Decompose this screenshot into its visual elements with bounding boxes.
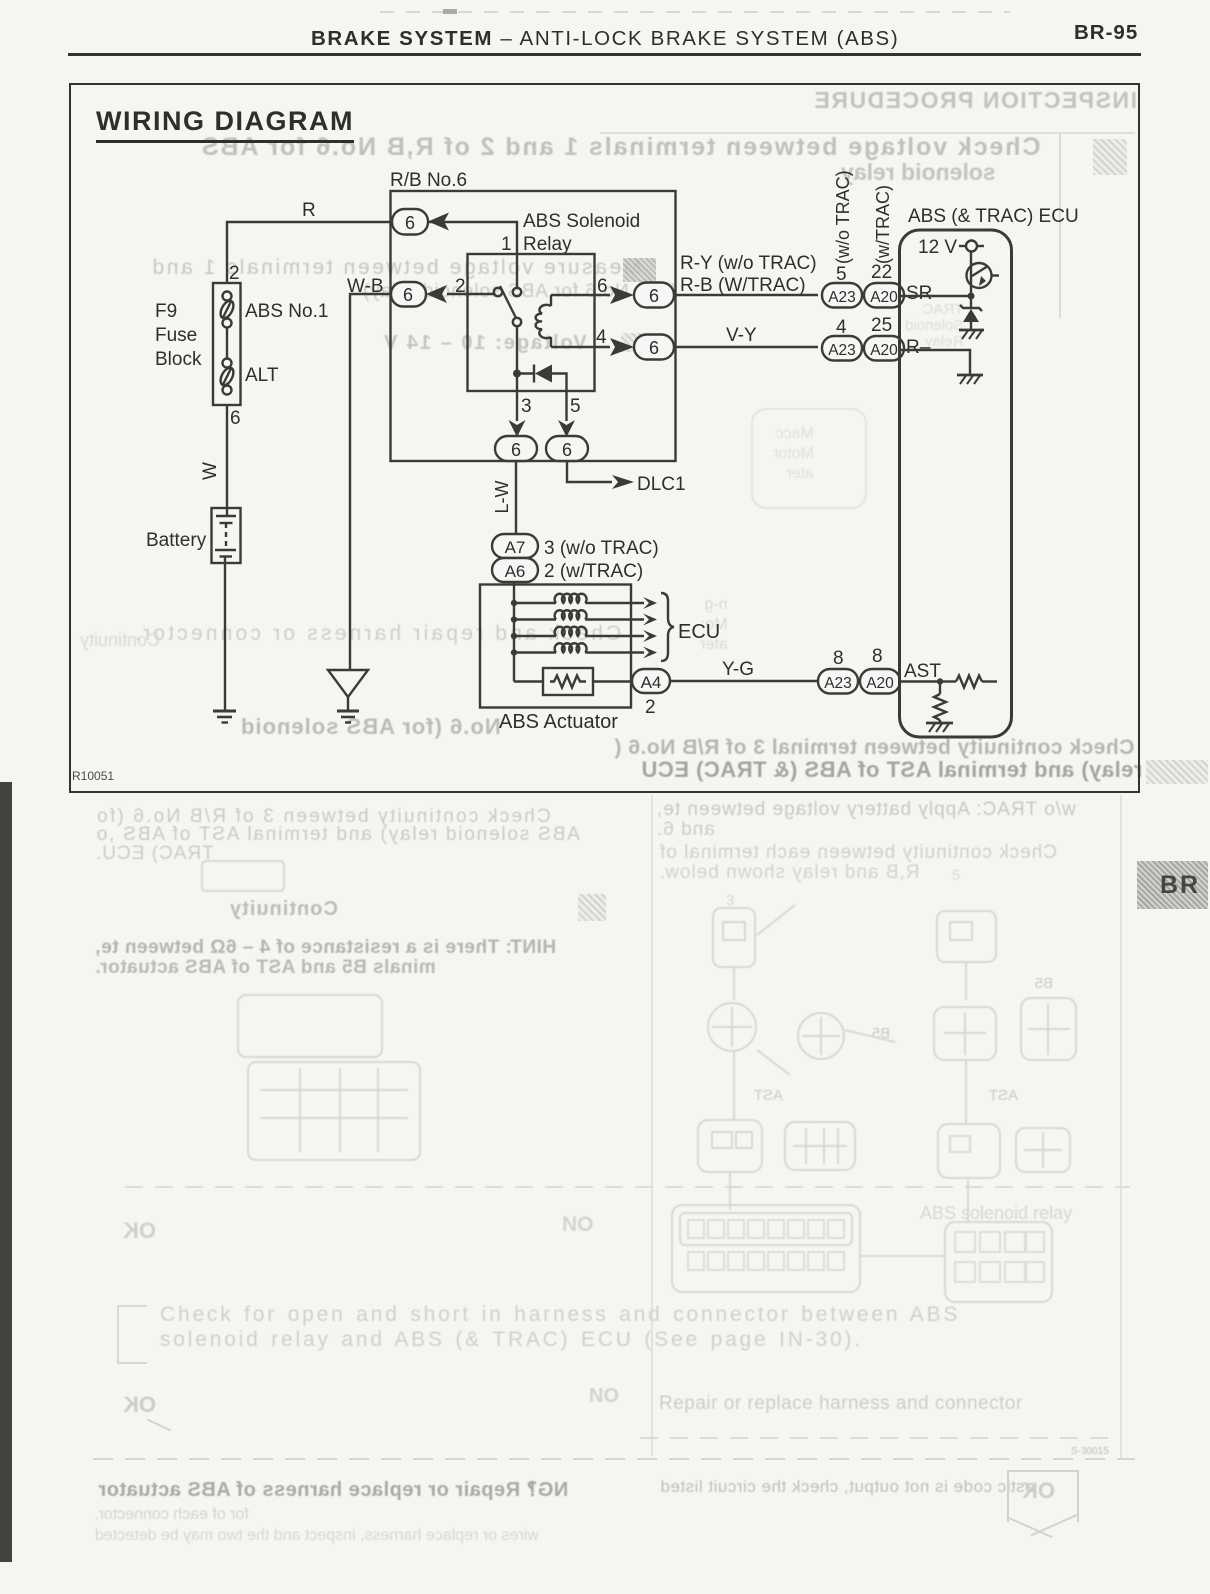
wire A6 to actuator — [513, 582, 515, 585]
DLC1 label — [637, 474, 686, 495]
connector A20 (SR) — [864, 283, 904, 308]
wire W (fuse block to battery) — [226, 405, 228, 508]
svg-text:6: 6 — [403, 285, 413, 305]
junction dot row 2 — [511, 616, 517, 622]
12 V terminal symbol — [959, 241, 984, 252]
solenoid coil row 4 — [514, 643, 644, 652]
bottom mirrored lines — [98, 1477, 568, 1502]
resistor R2 (AST pull) — [940, 676, 997, 688]
arrow to DLC1 — [612, 475, 634, 489]
node W-B label — [347, 276, 384, 297]
ABS Solenoid Relay label — [523, 211, 640, 255]
svg-text:A20: A20 — [866, 675, 894, 692]
wire switch to diode junction — [516, 326, 518, 391]
wire fuse link (between fuses) — [226, 327, 228, 359]
arrow to ECU row 1 — [643, 597, 657, 609]
svg-text:4: 4 — [596, 327, 607, 348]
svg-text:Block: Block — [155, 349, 202, 370]
svg-text:SR: SR — [906, 283, 932, 304]
pin 2 label (fuse block top) — [229, 263, 240, 284]
node R-B (W/TRAC) label — [680, 275, 806, 296]
wire R-Y/R-B (relay to ECU SR) — [674, 294, 818, 296]
fuse block F9 outline — [213, 283, 241, 405]
R- pin label — [906, 337, 931, 358]
transistor Q1 — [967, 263, 1000, 288]
F9 fuse block label — [155, 301, 202, 370]
fuse ALT value label — [245, 365, 279, 386]
relay U1 box — [468, 254, 595, 391]
pin 8 label (A20) — [872, 646, 883, 667]
connector A7 — [492, 534, 538, 558]
ground (zener) — [959, 330, 984, 339]
svg-text:R/B No.6: R/B No.6 — [390, 170, 467, 191]
pin 1 label (relay) — [501, 234, 512, 255]
svg-text:8: 8 — [872, 646, 883, 667]
right column below box — [656, 799, 1076, 821]
wire R (fuse block to relay pin 1) — [227, 222, 517, 288]
ground (R-) — [957, 375, 983, 384]
AST pin label — [904, 661, 941, 682]
svg-text:2: 2 — [645, 697, 656, 718]
arrow to ECU row 4 — [643, 647, 657, 659]
svg-text:6: 6 — [511, 440, 521, 460]
svg-text:L-W: L-W — [492, 480, 512, 513]
ground (AST) — [926, 723, 953, 732]
pin 25 label (A20 R-) — [871, 315, 892, 336]
svg-text:1: 1 — [501, 234, 512, 255]
connector 6 (pin 3 bottom) — [495, 436, 537, 461]
arrow into R connector — [428, 213, 449, 231]
solenoid coil row 2 — [514, 610, 644, 619]
wire pin 3 down — [516, 391, 518, 421]
svg-text:Battery: Battery — [146, 530, 207, 551]
arrow into connector 6 (R-Y row) — [610, 286, 634, 304]
arrow into connector 6 (pin 3) — [509, 420, 526, 437]
ground triangle (W-B) — [328, 670, 368, 723]
svg-text:V-Y: V-Y — [726, 325, 757, 346]
node V-Y label — [726, 325, 757, 346]
node L-W label — [492, 480, 512, 513]
connector A23 (AST) — [818, 669, 858, 694]
A7 pin label 3 (w/o TRAC) — [544, 538, 659, 559]
node R label — [302, 200, 316, 221]
battery label — [146, 530, 207, 551]
svg-text:R–: R– — [906, 337, 931, 358]
svg-text:A4: A4 — [641, 673, 662, 692]
junction dot row 1 — [511, 600, 517, 606]
svg-text:12 V: 12 V — [918, 237, 957, 258]
wire battery to ground — [224, 563, 226, 711]
junction node SR — [968, 293, 975, 300]
fuse ABS No.1 — [218, 292, 236, 328]
connector A6 — [492, 558, 538, 582]
OK pentagon tag bottom right — [1007, 1470, 1079, 1522]
zener diode D2 — [960, 296, 982, 330]
svg-text:ABS Solenoid: ABS Solenoid — [523, 211, 640, 232]
arrow into connector 6 (V-Y row) — [610, 338, 634, 356]
svg-text:A20: A20 — [870, 289, 898, 306]
wire V-Y (relay to ECU R-) — [674, 346, 818, 348]
node Y-G label — [722, 659, 754, 680]
svg-text:A20: A20 — [870, 342, 898, 359]
svg-text:3: 3 — [521, 396, 532, 417]
connector 6 (V-Y output) — [634, 335, 674, 360]
relay switch contacts — [494, 286, 521, 326]
junction dot row 3 — [511, 633, 517, 639]
connector 6 (W-B, R/B No.6) — [391, 282, 426, 307]
pin 6 label (fuse block bottom) — [230, 408, 241, 429]
svg-text:(w/TRAC): (w/TRAC) — [873, 185, 893, 264]
ground (battery) — [213, 711, 236, 723]
ECU label (brace) — [678, 621, 720, 643]
resistor R1 (actuator) — [514, 668, 632, 695]
svg-text:A6: A6 — [505, 562, 526, 581]
svg-text:6: 6 — [230, 408, 241, 429]
wire Y-G — [670, 680, 818, 682]
svg-text:6: 6 — [649, 286, 659, 306]
svg-text:6: 6 — [649, 338, 659, 358]
ECU brace — [661, 593, 674, 661]
ABS (& TRAC) ECU label — [908, 206, 1079, 227]
arrow to ECU row 2 — [643, 614, 657, 626]
wire pin2 to W-B connector — [447, 293, 494, 295]
svg-text:R: R — [302, 200, 316, 221]
12 V supply label — [918, 237, 957, 258]
pin 4 label (A23 R-) — [836, 317, 847, 338]
connector 6 (R input, R/B No.6) — [392, 209, 428, 235]
A4 pin 2 label — [645, 697, 656, 718]
svg-text:6: 6 — [597, 276, 608, 297]
pin 5 label (A23 SR) — [836, 264, 847, 285]
svg-text:AST: AST — [904, 661, 941, 682]
junction node (pin 3 / diode) — [513, 370, 521, 378]
relay block R/B No.6 box — [391, 191, 676, 461]
svg-text:ABS No.1: ABS No.1 — [245, 301, 328, 322]
pin 6 label (relay) — [597, 276, 608, 297]
svg-text:2: 2 — [229, 263, 240, 284]
SR pin label — [906, 283, 932, 304]
header rule — [68, 53, 1141, 56]
wire relay pin 4 — [551, 346, 610, 348]
node R-Y (w/o TRAC) label — [680, 253, 817, 274]
pin 2 label (relay) — [455, 276, 466, 297]
fuse ALT — [218, 359, 236, 395]
ECU box (ABS & TRAC ECU) — [900, 230, 1012, 737]
pin 5 label (relay) — [570, 396, 581, 417]
svg-text:A7: A7 — [505, 538, 526, 557]
connector 6 (pin 5 bottom) — [546, 436, 588, 461]
svg-text:2 (w/TRAC): 2 (w/TRAC) — [544, 561, 643, 582]
R/B No.6 label — [390, 170, 467, 191]
battery — [212, 508, 241, 563]
relay coil — [536, 295, 551, 347]
wire 12V to transistor — [970, 252, 972, 297]
svg-text:8: 8 — [833, 648, 844, 669]
wire AST into ECU — [900, 680, 940, 682]
A6 pin label 2 (w/TRAC) — [544, 561, 643, 582]
faint column/table lines — [651, 795, 653, 1456]
svg-text:A23: A23 — [828, 342, 856, 359]
svg-text:3 (w/o TRAC): 3 (w/o TRAC) — [544, 538, 659, 559]
svg-text:Y-G: Y-G — [722, 659, 754, 680]
svg-text:6: 6 — [405, 213, 415, 233]
solenoid coil row 1 — [514, 594, 644, 603]
svg-text:(w/o TRAC): (w/o TRAC) — [833, 170, 853, 264]
connector A23 (R-) — [822, 336, 862, 361]
arrow into connector 6 (pin 5) — [558, 420, 575, 437]
svg-text:R-B (W/TRAC): R-B (W/TRAC) — [680, 275, 806, 296]
(w/TRAC) column label — [873, 185, 893, 264]
svg-text:Fuse: Fuse — [155, 325, 197, 346]
node W label — [200, 462, 221, 480]
svg-text:22: 22 — [871, 262, 892, 283]
ABS Actuator label — [499, 711, 618, 733]
svg-text:A23: A23 — [828, 289, 856, 306]
svg-text:F9: F9 — [155, 301, 177, 322]
solenoid coil row 3 — [514, 627, 644, 636]
svg-text:ECU: ECU — [678, 621, 720, 643]
wire L-W — [515, 461, 517, 534]
connector A20 (AST) — [860, 669, 900, 694]
pin 22 label (A20 SR) — [871, 262, 892, 283]
svg-text:ABS Actuator: ABS Actuator — [499, 711, 618, 733]
wire pin 5 down — [565, 391, 567, 421]
wire R- to ground — [901, 350, 970, 375]
connector A4 — [632, 669, 670, 693]
arrow to ECU row 3 — [643, 630, 657, 642]
inside wiring box : mirrored show-through — [813, 87, 1137, 114]
svg-text:ABS (& TRAC) ECU: ABS (& TRAC) ECU — [908, 206, 1079, 227]
svg-text:6: 6 — [562, 440, 572, 460]
connector A23 (SR) — [822, 283, 862, 308]
wire relay pin 6 — [551, 294, 610, 296]
wire SR to junction — [901, 295, 971, 297]
junction node AST — [937, 678, 943, 684]
svg-text:5: 5 — [570, 396, 581, 417]
arrow into W-B connector — [426, 285, 447, 303]
pin 8 label (A23) — [833, 648, 844, 669]
fuse ABS No.1 value label — [245, 301, 328, 322]
wire DLC1 branch — [567, 461, 612, 482]
actuator bus wire — [513, 585, 515, 682]
ABS Actuator box — [480, 585, 631, 708]
diode D1 (relay clamp) — [517, 365, 567, 392]
svg-text:A23: A23 — [824, 675, 852, 692]
svg-text:DLC1: DLC1 — [637, 474, 686, 495]
svg-text:ALT: ALT — [245, 365, 279, 386]
svg-text:R-Y (w/o TRAC): R-Y (w/o TRAC) — [680, 253, 817, 274]
(w/o TRAC) column label — [833, 170, 853, 264]
svg-text:25: 25 — [871, 315, 892, 336]
pin 4 label (relay) — [596, 327, 607, 348]
junction dot row 4 — [511, 649, 517, 655]
pin 3 label (relay) — [521, 396, 532, 417]
left column (mirrored show-through) — [95, 806, 551, 828]
resistor R3 (AST to ground) — [934, 682, 946, 724]
connector A20 (R-) — [864, 336, 904, 361]
svg-text:W: W — [200, 462, 221, 480]
BR thumb tab — [1137, 861, 1208, 909]
svg-text:Relay: Relay — [523, 234, 572, 255]
wire W-B to ground triangle — [350, 294, 391, 669]
below the wiring box — [0, 782, 12, 1562]
connector 6 (R-Y/R-B output) — [634, 283, 674, 308]
top page furniture bleed — [380, 11, 1010, 13]
